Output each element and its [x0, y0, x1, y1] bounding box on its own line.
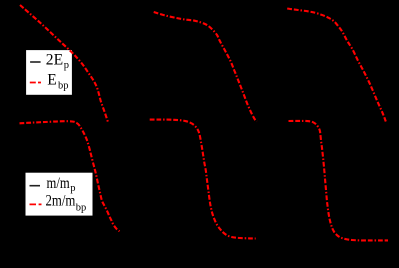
- curve E_bp top-middle panel: [154, 12, 257, 122]
- curve E_bp top-left panel: [20, 5, 108, 122]
- legend box top-left: [26, 50, 72, 95]
- legend sample solid 2Ep: [30, 61, 40, 63]
- legend label 2m/mbp: [46, 193, 87, 214]
- svg-text:2m/m: 2m/m: [46, 193, 76, 210]
- curve E_bp top-right panel: [287, 9, 386, 122]
- curve 2m/m_bp bottom-left panel: [20, 121, 120, 231]
- svg-text:m/m: m/m: [47, 175, 70, 192]
- svg-text:bp: bp: [58, 81, 69, 92]
- legend sample solid m/mp: [30, 185, 41, 187]
- legend sample dashed 2m/mbp: [30, 203, 42, 205]
- legend label Ebp: [47, 71, 68, 91]
- legend box bottom-left: [26, 173, 93, 216]
- curve 2m/m_bp bottom-middle panel: [150, 120, 256, 239]
- svg-text:bp: bp: [76, 203, 87, 214]
- legend sample dashed Ebp: [30, 82, 41, 84]
- legend label m/mp: [47, 175, 76, 194]
- svg-text:E: E: [47, 71, 56, 88]
- svg-text:2E: 2E: [46, 52, 63, 69]
- curve 2m/m_bp bottom-right panel: [289, 121, 389, 241]
- svg-text:p: p: [64, 60, 69, 71]
- legend label 2Ep: [46, 52, 69, 72]
